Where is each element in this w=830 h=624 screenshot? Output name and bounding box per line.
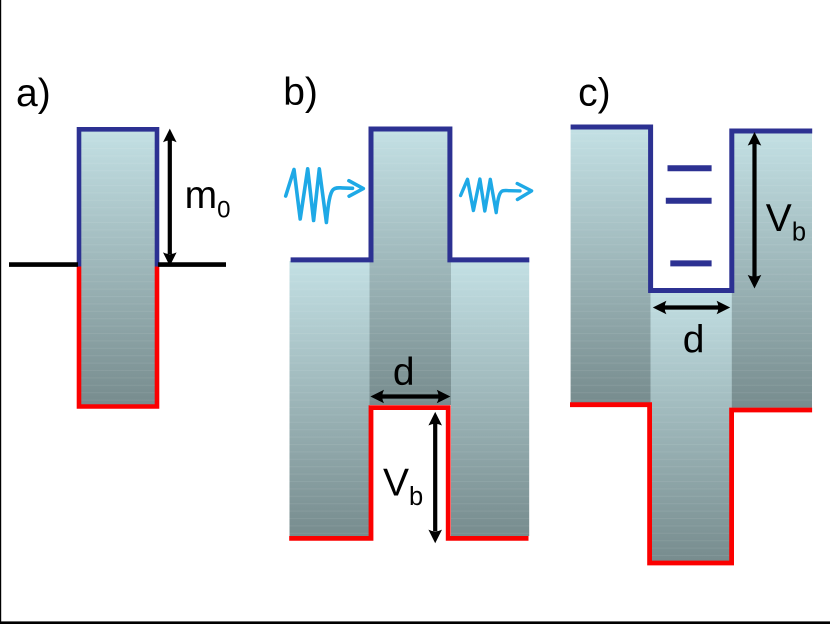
frame left border bbox=[0, 0, 1, 624]
baseline black line left segment a bbox=[9, 262, 78, 267]
red outline c bbox=[570, 405, 812, 563]
baseline black line right segment a bbox=[158, 262, 226, 267]
energy level 3 bbox=[670, 260, 711, 266]
center column fill c bbox=[648, 288, 734, 561]
Vb arrow c (double-headed vertical) bbox=[748, 132, 762, 289]
blue barrier outline b bbox=[291, 129, 530, 260]
d arrow b (double-headed horizontal) bbox=[370, 390, 450, 404]
red notch outline b bbox=[289, 408, 528, 539]
slab fill b right bbox=[451, 261, 529, 536]
energy level 1 bbox=[668, 165, 712, 171]
svg-text:Vb: Vb bbox=[383, 462, 423, 512]
svg-text:b): b) bbox=[283, 71, 318, 114]
blue outline a (upper) bbox=[79, 129, 157, 266]
Vb arrow b (double-headed vertical) bbox=[428, 412, 442, 543]
svg-text:c): c) bbox=[578, 71, 611, 114]
energy level 2 bbox=[666, 198, 712, 204]
slab fill b left bbox=[290, 261, 370, 536]
photon wave incoming (left) bbox=[286, 169, 364, 223]
blue well outline c bbox=[571, 127, 813, 291]
barrier column fill b bbox=[370, 131, 452, 405]
svg-text:a): a) bbox=[16, 72, 51, 115]
d arrow c (double-headed horizontal) bbox=[653, 301, 730, 315]
photon wave outgoing (right) bbox=[461, 179, 532, 213]
bar fill a bbox=[80, 130, 156, 405]
svg-text:d: d bbox=[683, 319, 705, 362]
svg-text:d: d bbox=[393, 351, 415, 394]
red outline a (lower) bbox=[79, 267, 157, 407]
svg-text:m0: m0 bbox=[185, 174, 231, 223]
m0 arrow a (double-headed vertical) bbox=[163, 129, 177, 266]
left column fill c bbox=[571, 129, 651, 403]
right column fill c bbox=[732, 133, 812, 408]
frame bottom border bbox=[0, 621, 830, 624]
